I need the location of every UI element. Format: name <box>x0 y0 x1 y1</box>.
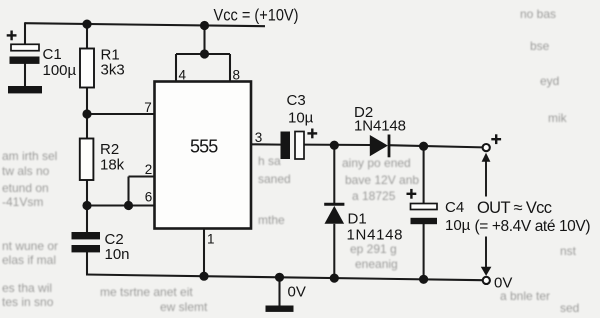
svg-text:3: 3 <box>255 130 263 145</box>
C1 polarity plus sign <box>7 31 17 41</box>
output terminal plus <box>483 144 490 151</box>
wire D1 anode to ground rail <box>333 224 335 278</box>
node D1 at ground rail <box>330 274 339 283</box>
pin number 8 <box>233 68 241 83</box>
label C4 <box>445 199 464 216</box>
capacitor C1 positive plate <box>11 44 39 50</box>
svg-text:mthe: mthe <box>258 213 285 227</box>
value 1N4148 (D2) <box>354 118 406 135</box>
label 0V (ground) <box>288 284 306 301</box>
svg-text:bave 12V anb: bave 12V anb <box>345 173 419 187</box>
capacitor C1 negative plate <box>10 57 40 64</box>
svg-text:no bas: no bas <box>520 7 556 21</box>
label C2 <box>105 231 124 248</box>
svg-text:8: 8 <box>233 68 241 83</box>
svg-text:0V: 0V <box>288 284 306 301</box>
wire D1 cathode to node <box>333 145 335 203</box>
svg-text:eyd: eyd <box>540 74 559 88</box>
svg-text:1N4148: 1N4148 <box>354 118 406 135</box>
svg-text:10n: 10n <box>105 246 130 263</box>
svg-text:D1: D1 <box>348 211 367 228</box>
pin number 1 <box>207 232 215 247</box>
capacitor C4 negative plate <box>411 218 438 224</box>
svg-text:me tsrtne anet eit: me tsrtne anet eit <box>100 285 193 299</box>
svg-text:es tha wil: es tha wil <box>2 281 52 295</box>
wire pin 6 <box>87 204 155 206</box>
svg-text:7: 7 <box>144 100 152 115</box>
svg-text:100µ: 100µ <box>43 62 77 79</box>
value 100µ <box>43 62 77 79</box>
label C3 <box>287 92 306 109</box>
value 3k3 <box>101 62 125 79</box>
node Vcc at pins 4-8 <box>200 21 209 30</box>
svg-text:555: 555 <box>190 137 218 157</box>
capacitor C3 positive plate <box>295 132 304 160</box>
node C3/D1/D2 <box>330 141 339 150</box>
diode D2 <box>370 135 389 158</box>
svg-text:h sa: h sa <box>258 154 281 168</box>
label (= +8.4V até 10V) <box>475 218 591 235</box>
svg-text:1N4148: 1N4148 <box>347 227 403 244</box>
node Vcc at R1 <box>82 20 91 29</box>
svg-text:C3: C3 <box>287 92 306 109</box>
output arrow up <box>482 153 491 197</box>
svg-text:am irth sel: am irth sel <box>2 149 57 163</box>
output plus sign <box>491 134 501 144</box>
svg-text:tw als no: tw als no <box>2 164 50 178</box>
wire Vcc top rail <box>25 23 265 26</box>
wire C1 to rail <box>24 22 26 45</box>
label 555 <box>190 137 218 157</box>
pin number 4 <box>179 68 187 83</box>
wire pin 4 <box>175 54 177 82</box>
wire 0V bottom rail <box>86 275 483 281</box>
ground bar below C1 <box>8 86 42 93</box>
wire ground stub <box>278 277 280 306</box>
wire pin 2 <box>129 175 155 177</box>
resistor R2 <box>80 139 94 181</box>
wire pin 2 vertical <box>127 177 129 206</box>
svg-text:bse: bse <box>530 39 550 53</box>
svg-text:nst: nst <box>560 244 577 258</box>
value 10n <box>105 246 130 263</box>
svg-text:elas if mal: elas if mal <box>2 253 56 267</box>
label R1 <box>101 47 120 64</box>
junction on 4-8 bracket <box>200 49 209 58</box>
wire pin 8 <box>229 54 231 82</box>
pin number 3 <box>255 130 263 145</box>
svg-text:4: 4 <box>179 68 187 83</box>
value 1N4148 (D1) <box>347 227 403 244</box>
svg-text:ep 291 g: ep 291 g <box>350 242 397 256</box>
svg-text:ainy po ened: ainy po ened <box>342 156 411 170</box>
svg-text:a 18725: a 18725 <box>352 189 396 203</box>
wire pin 7 <box>87 113 155 115</box>
svg-text:10µ: 10µ <box>445 217 471 234</box>
svg-text:18k: 18k <box>100 157 125 174</box>
wire output node to C4 <box>423 146 425 204</box>
value 10µ (C4) <box>445 217 471 234</box>
label R2 <box>100 141 119 158</box>
node D2/C4/output <box>419 142 428 151</box>
svg-text:ew slemt: ew slemt <box>160 300 208 314</box>
label D2 <box>354 104 373 121</box>
svg-text:6: 6 <box>145 190 153 205</box>
svg-text:R2: R2 <box>100 141 119 158</box>
svg-text:10µ: 10µ <box>288 110 314 127</box>
wire D2 to output node <box>388 145 483 147</box>
wire C4 to ground rail <box>423 224 425 280</box>
wire node7 to R2 <box>86 114 88 139</box>
capacitor C3 negative plate <box>281 132 291 160</box>
svg-text:OUT ≈ Vcc: OUT ≈ Vcc <box>477 199 552 217</box>
pin number 6 <box>145 190 153 205</box>
wire C3 to D2 <box>305 144 371 146</box>
node pin 7 / R1-R2 <box>82 109 91 118</box>
pin number 7 <box>144 100 152 115</box>
wire C2 to ground rail <box>86 252 88 275</box>
svg-text:-41Vsm: -41Vsm <box>2 195 43 209</box>
capacitor C2 top plate <box>72 232 101 239</box>
svg-text:mik: mik <box>548 111 568 125</box>
label C1 <box>43 46 62 63</box>
svg-text:Vcc = (+10V): Vcc = (+10V) <box>214 7 299 25</box>
wire pin 3 <box>251 143 281 145</box>
svg-text:C1: C1 <box>43 46 62 63</box>
wire C1 negative lead <box>24 63 26 87</box>
output arrow down <box>481 237 492 276</box>
pin number 2 <box>145 162 153 177</box>
capacitor C4 positive plate <box>411 204 438 210</box>
svg-text:tes in sno: tes in sno <box>2 295 54 309</box>
wire R1 to node 7 <box>86 87 88 114</box>
output terminal 0V <box>483 277 490 284</box>
svg-text:C4: C4 <box>445 199 464 216</box>
capacitor C2 bottom plate <box>72 245 101 252</box>
wire bracket to Vcc rail <box>203 26 205 55</box>
value 10µ (C3) <box>288 110 314 127</box>
value 18k <box>100 157 125 174</box>
wire pin4-pin8 bracket <box>176 53 230 55</box>
junction pin2-pin6 tie <box>124 201 133 210</box>
IC 555 timer body <box>155 82 252 229</box>
svg-text:0V: 0V <box>494 275 512 292</box>
wire R2 to node 6 <box>86 180 88 206</box>
label Vcc = (+10V) <box>214 7 299 25</box>
label 0V (output) <box>494 275 512 292</box>
C3 polarity plus sign <box>307 129 317 139</box>
svg-text:sed: sed <box>560 301 579 315</box>
wire pin 1 to ground rail <box>203 229 205 277</box>
node pin1 at ground rail <box>199 272 208 281</box>
label OUT ≈ Vcc <box>477 199 552 217</box>
resistor R1 <box>80 49 94 88</box>
svg-text:eneanig: eneanig <box>355 257 398 271</box>
C4 polarity plus sign <box>407 189 417 199</box>
svg-text:nt wune or: nt wune or <box>2 239 58 253</box>
ground symbol 0V <box>266 306 294 312</box>
node ground symbol tie <box>275 273 284 282</box>
diode D1 <box>324 204 344 224</box>
svg-text:2: 2 <box>145 162 153 177</box>
svg-text:saned: saned <box>258 172 291 186</box>
node C4 at ground rail <box>419 275 428 284</box>
svg-text:1: 1 <box>207 232 215 247</box>
node pin 6 / R2-C2 <box>82 201 91 210</box>
wire node 6 to C2 <box>86 206 88 234</box>
wire rail to R1 <box>86 24 88 50</box>
svg-text:3k3: 3k3 <box>101 62 125 79</box>
svg-text:(= +8.4V até 10V): (= +8.4V até 10V) <box>475 218 591 235</box>
label D1 <box>348 211 367 228</box>
svg-text:etund on: etund on <box>2 181 49 195</box>
